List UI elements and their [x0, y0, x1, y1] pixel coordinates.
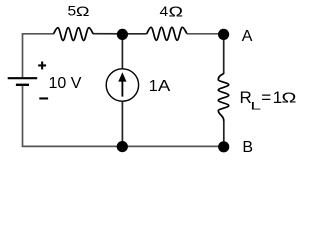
- battery plus sign: [38, 62, 46, 70]
- battery minus sign: [39, 97, 48, 99]
- svg-text:Ω: Ω: [76, 4, 90, 20]
- wire bottom horizontal: [22, 145, 224, 147]
- wire from RL down to node B: [223, 121, 225, 147]
- node B dot: [218, 141, 229, 152]
- svg-text:5: 5: [68, 4, 77, 19]
- battery V1 short plate (-): [16, 84, 29, 86]
- wire from node A down to RL: [223, 34, 225, 74]
- resistor 5 ohm (squiggle): [54, 28, 94, 41]
- svg-text:A: A: [158, 76, 171, 95]
- resistor RL vertical squiggle: [218, 73, 228, 120]
- svg-text:1: 1: [149, 78, 158, 95]
- resistor 4 ohm (squiggle): [147, 27, 187, 40]
- battery V1 long plate (+): [8, 77, 38, 79]
- wire top-left horizontal: [23, 33, 55, 35]
- svg-text:Ω: Ω: [169, 3, 184, 20]
- wire from top junction down to current source: [121, 34, 123, 69]
- wire between top junction and 4-ohm: [122, 33, 146, 35]
- wire from current source down to bottom junction: [121, 101, 123, 146]
- current source arrow shaft: [121, 80, 123, 97]
- svg-text:A: A: [242, 28, 253, 45]
- svg-text:B: B: [242, 139, 253, 156]
- svg-text:10 V: 10 V: [49, 75, 82, 92]
- svg-text:4: 4: [160, 5, 169, 20]
- wire between 5-ohm and top junction: [93, 33, 123, 35]
- current source arrowhead: [118, 72, 126, 81]
- svg-text:Ω: Ω: [282, 89, 297, 106]
- svg-text:L: L: [250, 100, 261, 112]
- junction dot top (between 5 and 4 ohm): [117, 29, 128, 40]
- wire between 4-ohm and node A: [187, 33, 224, 35]
- wire battery bottom lead: [22, 86, 24, 147]
- wire left vertical (battery top lead): [22, 33, 24, 77]
- junction dot bottom: [117, 141, 128, 152]
- current source I1 circle: [106, 69, 138, 101]
- svg-text:=: =: [261, 88, 271, 107]
- node A dot: [218, 29, 229, 40]
